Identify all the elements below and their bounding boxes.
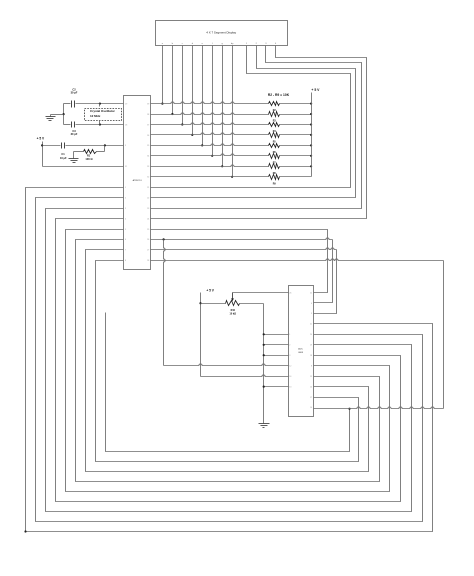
svg-text:R2 - R9 = 10K: R2 - R9 = 10K [268,93,290,97]
svg-text:+ 5 V: + 5 V [311,88,320,92]
svg-text:+ 5 V: + 5 V [37,136,45,140]
svg-text:Crystal Oscillator: Crystal Oscillator [90,109,116,113]
svg-text:+ 5 V: + 5 V [206,289,214,293]
svg-text:30 pF: 30 pF [71,91,78,95]
svg-text:AT89C51: AT89C51 [133,179,143,182]
svg-text:30 pF: 30 pF [71,132,78,136]
svg-text:C1: C1 [61,152,65,156]
svg-text:ADC: ADC [298,347,303,350]
svg-text:10 µF: 10 µF [60,156,67,160]
svg-text:10 kΩ: 10 kΩ [230,312,237,315]
svg-text:R1: R1 [87,154,91,158]
svg-text:12 MHz: 12 MHz [90,114,101,118]
svg-text:4 X 7 Segment Display: 4 X 7 Segment Display [206,31,236,35]
svg-text:0808: 0808 [298,352,304,354]
svg-text:100 Ω: 100 Ω [85,157,92,161]
